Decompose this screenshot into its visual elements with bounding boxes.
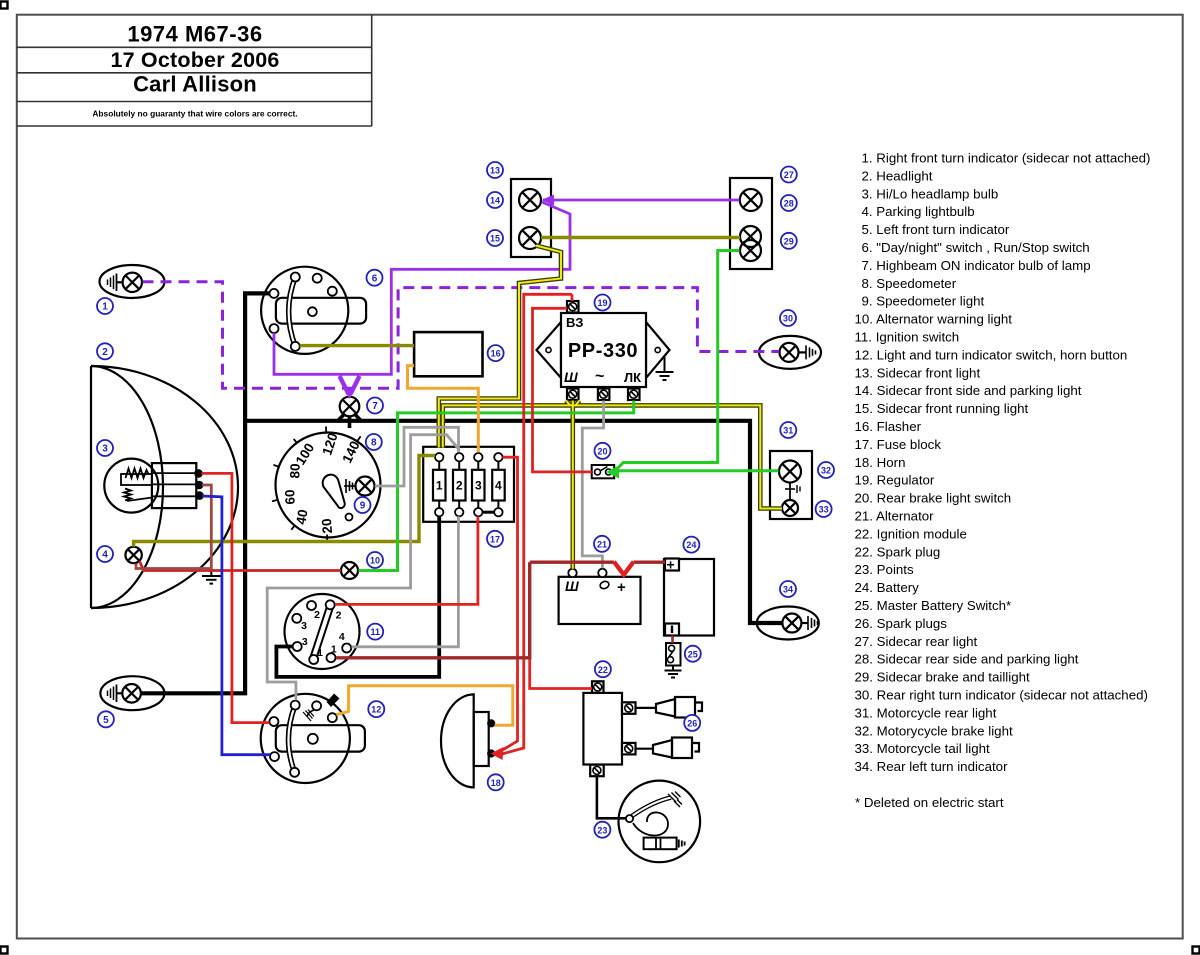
wire green arrowhead at switch20: [606, 466, 619, 479]
node label 11: [367, 624, 383, 640]
wire purple arrowhead at lamp14: [542, 195, 555, 206]
svg-text:22. Ignition module: 22. Ignition module: [855, 526, 967, 541]
svg-text:20: 20: [597, 446, 607, 456]
wire black module22 to points: [597, 776, 626, 818]
wire bright red V notch: [614, 562, 634, 575]
svg-text:27. Sidecar rear light: 27. Sidecar rear light: [855, 634, 978, 649]
fuse block 17: [423, 447, 514, 522]
node label 29: [781, 233, 797, 249]
svg-text:18: 18: [491, 778, 501, 788]
wire orange switch12 to horn: [336, 686, 513, 725]
motorcycle rear light box 31: [770, 451, 812, 519]
svg-text:23: 23: [597, 825, 607, 835]
wire gray fuse2 to lamp9: [375, 427, 459, 486]
hi/lo bulb 3: [104, 459, 202, 513]
svg-text:+: +: [617, 579, 626, 596]
node label 9: [355, 497, 371, 513]
node label 10: [367, 552, 383, 568]
svg-text:22. Spark plug: 22. Spark plug: [855, 544, 941, 559]
wire black bus to lamp34: [245, 421, 782, 623]
ignition switch 11: [285, 594, 360, 669]
svg-text:31. Motorcycle rear light: 31. Motorcycle rear light: [855, 705, 997, 720]
wire gray fuse2 to switch12: [267, 435, 459, 701]
svg-text:12: 12: [371, 705, 381, 715]
node label 25: [685, 646, 701, 662]
wire olive lamp4 to fuse1: [134, 456, 435, 547]
svg-text:16. Flasher: 16. Flasher: [855, 419, 922, 434]
svg-text:3. Hi/Lo headlamp bulb: 3. Hi/Lo headlamp bulb: [862, 186, 999, 201]
wire brown headlight pin2 to lamp4 ground: [136, 485, 211, 569]
svg-text:12. Light and turn indicator s: 12. Light and turn indicator switch, hor…: [855, 347, 1128, 362]
brake light switch 20: [592, 465, 615, 478]
svg-text:21: 21: [597, 539, 607, 549]
LEGEND: [855, 151, 1151, 810]
svg-text:3: 3: [302, 636, 308, 648]
svg-text:32. Motorycycle brake light: 32. Motorycycle brake light: [855, 723, 1013, 738]
wire black fuse1 to ignition switch: [276, 516, 439, 677]
svg-text:9. Speedometer light: 9. Speedometer light: [862, 294, 985, 309]
node label 21: [594, 536, 610, 552]
points 23: [619, 781, 701, 863]
svg-text:20: 20: [319, 518, 335, 534]
wire red fuse3 to ignition switch: [335, 516, 478, 604]
node label 6: [367, 270, 383, 286]
node label 26: [684, 715, 700, 731]
node label 23: [594, 822, 610, 838]
sidecar rear light box 27: [730, 178, 772, 269]
svg-text:13: 13: [490, 166, 500, 176]
svg-text:1: 1: [102, 302, 108, 313]
alternator warning lamp 10: [341, 562, 358, 579]
sidecar front light box 13: [511, 179, 551, 257]
TITLE-BLOCK: [17, 15, 372, 126]
rear left turn lamp 34: [757, 607, 819, 640]
wire blue headlight pin3 to switch12: [202, 496, 270, 755]
node label 17: [487, 531, 503, 547]
svg-text:9: 9: [360, 501, 366, 512]
node label 14: [487, 192, 503, 208]
wire gray fuse2 to ignition terminal4: [352, 516, 459, 646]
svg-text:23. Points: 23. Points: [855, 562, 914, 577]
node label 33: [816, 501, 832, 517]
svg-text:26. Spark plugs: 26. Spark plugs: [855, 616, 948, 631]
svg-text:8. Speedometer: 8. Speedometer: [862, 276, 957, 291]
svg-text:7: 7: [372, 401, 378, 412]
switch cluster 12: [261, 694, 365, 784]
wire olive switch6 to flasher: [300, 344, 414, 347]
selection handle top-left: [1, 2, 8, 9]
switch 6 day/night run/stop: [261, 267, 366, 354]
selection handle bottom-right: [1193, 947, 1200, 954]
wire maroon alternator bus to battery: [530, 561, 665, 564]
wire maroon battery minus to switch25: [671, 636, 674, 644]
node label 8: [366, 434, 382, 450]
svg-text:4: 4: [102, 550, 108, 561]
node label 4: [97, 546, 113, 562]
svg-text:~: ~: [595, 368, 604, 385]
wire gray regulator to alternator: [582, 401, 603, 569]
svg-text:21. Alternator: 21. Alternator: [855, 509, 935, 524]
svg-text:ВЗ: ВЗ: [566, 315, 583, 330]
node label 16: [488, 345, 504, 361]
svg-text:20. Rear brake light switch: 20. Rear brake light switch: [855, 491, 1012, 506]
svg-text:4: 4: [495, 479, 502, 493]
node label 32: [818, 462, 834, 478]
wire red battery junction to module22: [530, 659, 592, 689]
battery 24: [664, 557, 714, 636]
svg-text:5: 5: [103, 715, 109, 726]
parking lamp 4: [125, 547, 141, 563]
svg-text:31: 31: [783, 426, 793, 436]
node label 13: [487, 162, 503, 178]
rear right turn lamp 30: [759, 336, 821, 369]
node label 18: [488, 774, 504, 790]
svg-text:15: 15: [490, 234, 500, 244]
svg-text:4. Parking lightbulb: 4. Parking lightbulb: [862, 204, 975, 219]
svg-text:34. Rear left turn indicator: 34. Rear left turn indicator: [855, 759, 1009, 774]
svg-text:29: 29: [784, 236, 794, 246]
svg-text:25: 25: [688, 649, 698, 659]
svg-text:6. "Day/night" switch , Run/St: 6. "Day/night" switch , Run/Stop switch: [862, 240, 1090, 255]
node label 2: [97, 343, 113, 359]
svg-text:Absolutely no guaranty that wi: Absolutely no guaranty that wire colors …: [92, 109, 297, 119]
node label 22: [595, 661, 611, 677]
svg-text:РР-330: РР-330: [568, 340, 638, 362]
spark plug upper 26: [636, 697, 703, 718]
svg-text:1: 1: [317, 647, 323, 659]
svg-text:60: 60: [282, 489, 298, 505]
wire purple dashed turn indicator circuit: [143, 282, 780, 389]
svg-text:1: 1: [436, 479, 443, 493]
node label 28: [781, 195, 797, 211]
wire red arrowhead at horn: [491, 747, 504, 760]
svg-text:8: 8: [371, 438, 377, 449]
svg-text:14. Sidecar front side and par: 14. Sidecar front side and parking light: [855, 383, 1082, 398]
svg-text:34: 34: [783, 585, 793, 595]
wire maroon down to ignition bus: [336, 562, 530, 658]
lamp 7 highbeam indicator: [340, 397, 360, 417]
spark plug lower 26: [636, 738, 700, 759]
svg-text:24. Battery: 24. Battery: [855, 580, 920, 595]
node label 27: [781, 167, 797, 183]
wire black backbone switch6 to lamp5: [141, 293, 269, 693]
wire yellow lamp15 to fuse1: [439, 246, 561, 448]
svg-text:ЛК: ЛК: [624, 370, 641, 385]
wire red regulator outer to horn: [500, 294, 572, 754]
node label 31: [780, 422, 796, 438]
svg-text:1: 1: [331, 644, 337, 656]
svg-text:13. Sidecar front light: 13. Sidecar front light: [855, 365, 981, 380]
node label 15: [487, 230, 503, 246]
svg-text:11: 11: [370, 627, 380, 637]
wire purple lamp14 to lamp28: [543, 199, 740, 202]
node label 30: [780, 310, 796, 326]
lamp 1 right front turn indicator: [100, 265, 165, 298]
alternator 21: [559, 569, 641, 624]
node label 1: [97, 298, 113, 314]
ignition module 22: [583, 681, 635, 776]
wire red regulator inner to brake switch: [533, 308, 592, 472]
svg-text:3: 3: [475, 479, 482, 493]
selection handle bottom-left: [1, 947, 8, 954]
svg-text:19: 19: [597, 298, 607, 308]
svg-text:7. Highbeam ON indicator bulb: 7. Highbeam ON indicator bulb of lamp: [862, 258, 1091, 273]
speedometer light 9: [344, 477, 375, 496]
svg-text:3: 3: [102, 444, 108, 455]
wire purple switch6 to lamps 7 and 14: [274, 202, 570, 374]
wire black lamp7 stubs: [337, 414, 362, 429]
svg-text:40: 40: [293, 508, 310, 525]
svg-text:1974 M67-36: 1974 M67-36: [127, 22, 262, 47]
wire red stub into VZ terminal: [571, 294, 574, 301]
wire yellow regulator Sh bus: [443, 399, 782, 569]
svg-text:1. Right front turn indicator: 1. Right front turn indicator (sidecar n…: [862, 151, 1151, 166]
svg-text:33. Motorcycle tail light: 33. Motorcycle tail light: [855, 741, 991, 756]
svg-text:25. Master Battery Switch*: 25. Master Battery Switch*: [855, 598, 1012, 613]
svg-text:2: 2: [102, 347, 108, 358]
svg-text:10. Alternator warning light: 10. Alternator warning light: [855, 312, 1013, 327]
svg-text:26: 26: [687, 719, 697, 729]
node label 5: [98, 711, 114, 727]
node label 34: [780, 581, 796, 597]
node label 19: [595, 295, 611, 311]
svg-text:30. Rear right turn indicator: 30. Rear right turn indicator (sidecar n…: [855, 688, 1148, 703]
node label 24: [683, 537, 699, 553]
wire olive lamp15 to lamp29: [541, 236, 740, 239]
svg-text:+: +: [667, 557, 675, 573]
node label 20: [595, 443, 611, 459]
title table grid: [17, 15, 372, 126]
svg-text:4: 4: [339, 631, 345, 643]
svg-text:17. Fuse block: 17. Fuse block: [855, 437, 942, 452]
svg-text:2: 2: [456, 479, 463, 493]
svg-text:3: 3: [301, 620, 307, 632]
svg-text:Carl Allison: Carl Allison: [133, 72, 257, 97]
svg-text:6: 6: [372, 273, 378, 284]
svg-text:14: 14: [490, 196, 500, 206]
svg-text:17 October 2006: 17 October 2006: [110, 48, 279, 72]
regulator 19 PP-330: [537, 301, 674, 400]
svg-text:5. Left front turn indicator: 5. Left front turn indicator: [862, 222, 1010, 237]
master battery switch 25: [665, 643, 682, 678]
wire red fuse4 to horn: [500, 457, 518, 751]
svg-text:16: 16: [491, 349, 501, 359]
svg-text:15. Sidecar front running ligh: 15. Sidecar front running light: [855, 401, 1029, 416]
svg-text:24: 24: [686, 540, 696, 550]
node label 7: [367, 398, 383, 414]
wire orange flasher to fuse3: [408, 366, 479, 453]
wire red headlight to switch12: [202, 473, 270, 722]
svg-text:28: 28: [784, 199, 794, 209]
speedometer 8: [272, 427, 381, 541]
svg-text:Ш: Ш: [565, 578, 579, 594]
lamp 5 left front turn indicator: [100, 676, 164, 710]
wire green lamp29 to brake switch: [616, 251, 740, 471]
svg-text:* Deleted on electric start: * Deleted on electric start: [855, 795, 1004, 810]
svg-text:30: 30: [783, 314, 793, 324]
svg-text:33: 33: [819, 505, 829, 515]
svg-text:17: 17: [490, 534, 500, 544]
node label 12: [368, 701, 384, 717]
svg-text:27: 27: [784, 170, 794, 180]
svg-text:2: 2: [314, 609, 320, 621]
wire purple arrow into lamp7: [340, 376, 360, 399]
node label 3: [97, 440, 113, 456]
svg-text:10: 10: [370, 556, 380, 566]
svg-text:32: 32: [821, 466, 831, 476]
wire green regulator LK to lamp10: [359, 401, 634, 571]
svg-text:28. Sidecar rear side and park: 28. Sidecar rear side and parking light: [855, 652, 1079, 667]
wire red lamp4 to lamp10: [140, 561, 342, 571]
svg-text:22: 22: [598, 665, 608, 675]
svg-text:2. Headlight: 2. Headlight: [862, 168, 933, 183]
flasher 16: [414, 332, 482, 376]
svg-text:Ш: Ш: [564, 369, 578, 385]
headlight 2 shell: [91, 366, 238, 608]
svg-text:29. Sidecar brake and tailligh: 29. Sidecar brake and taillight: [855, 670, 1030, 685]
svg-text:18. Horn: 18. Horn: [855, 455, 906, 470]
svg-text:19. Regulator: 19. Regulator: [855, 473, 935, 488]
horn 18: [441, 694, 494, 787]
headlight ground: [202, 569, 221, 584]
wire green brake switch to lamp32: [618, 469, 779, 472]
svg-text:11. Ignition switch: 11. Ignition switch: [855, 330, 960, 345]
svg-text:2: 2: [336, 610, 342, 622]
